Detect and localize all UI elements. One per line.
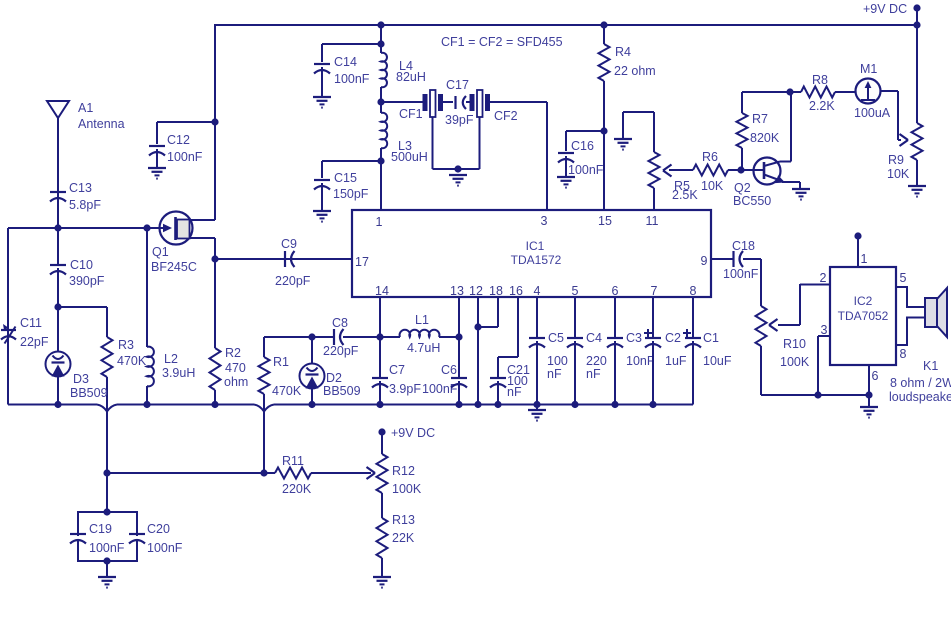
ground R9 [908, 186, 926, 197]
wire M1 to R9 wiper [881, 91, 909, 146]
wire pin 5 to speaker [896, 287, 925, 307]
svg-text:C5: C5 [548, 331, 564, 345]
pin 3 label IC2 [821, 323, 828, 337]
svg-text:nF: nF [507, 385, 522, 399]
capacitor C18 100nF [711, 239, 761, 281]
svg-text:R2: R2 [225, 346, 241, 360]
svg-text:2.2K: 2.2K [809, 99, 835, 113]
antenna A1 [47, 101, 125, 189]
wire +9V top rail [214, 24, 917, 26]
svg-text:3: 3 [541, 214, 548, 228]
node gate/L2 junction [143, 224, 150, 231]
pin 15 label [598, 214, 612, 228]
svg-text:ohm: ohm [224, 375, 248, 389]
wire C17 to CF2 [466, 101, 470, 103]
node bus junction C21 [494, 401, 501, 408]
wire gate line [8, 227, 168, 229]
svg-text:100nF: 100nF [147, 541, 183, 555]
wire R1 column through hop [263, 400, 265, 473]
wire R3 column through hop [106, 400, 108, 512]
op-amp IC1 TDA1572 body [352, 210, 711, 297]
pin 14 label [375, 284, 389, 298]
svg-text:R9: R9 [888, 153, 904, 167]
svg-text:220pF: 220pF [275, 274, 311, 288]
svg-text:C14: C14 [334, 55, 357, 69]
transistor Q1 BF245C [147, 212, 215, 275]
svg-text:10nF: 10nF [626, 354, 655, 368]
svg-text:3.9uH: 3.9uH [162, 366, 195, 380]
svg-text:D3: D3 [73, 372, 89, 386]
svg-text:+9V DC: +9V DC [863, 2, 907, 16]
wire C9 line to pin 17 [215, 258, 352, 260]
volume pot R10 100K [756, 259, 810, 395]
wire C8 line [264, 336, 400, 338]
svg-text:Q2: Q2 [734, 181, 751, 195]
capacitor C6 100nF [441, 363, 467, 405]
wire pin 3 line [818, 336, 830, 395]
svg-text:4.7uH: 4.7uH [407, 341, 440, 355]
svg-text:11: 11 [646, 214, 659, 228]
wire L4 column top [380, 25, 382, 53]
node bus junction C4 [571, 401, 578, 408]
node bus junction D2 [308, 401, 315, 408]
capacitor C17 39pF [445, 78, 474, 127]
node pin14/L1/C8 junction [376, 333, 383, 340]
wire left tuning branch [7, 228, 9, 405]
svg-text:D2: D2 [326, 371, 342, 385]
ground R13 [373, 577, 391, 588]
pin 1 label IC2 [861, 252, 868, 266]
ground bus symbol [528, 405, 546, 421]
svg-text:470K: 470K [117, 354, 147, 368]
pin 13 label [450, 284, 464, 298]
svg-text:BF245C: BF245C [151, 260, 197, 274]
capacitor C1 10uF [683, 297, 732, 405]
inductor L1 4.7uH [400, 313, 459, 355]
svg-text:C1: C1 [703, 331, 719, 345]
svg-text:100uA: 100uA [854, 106, 891, 120]
node IC2 pin 1 terminal [854, 232, 861, 267]
pin 18 label [489, 284, 503, 298]
svg-text:8: 8 [690, 284, 697, 298]
svg-text:220K: 220K [282, 482, 312, 496]
svg-text:Q1: Q1 [152, 245, 169, 259]
trimmer R12 100K [377, 432, 422, 518]
resistor R2 470 ohm [210, 346, 249, 405]
resistor R1 470K [259, 337, 302, 400]
svg-text:4: 4 [534, 284, 541, 298]
trimmer R5 2.5K [649, 112, 699, 210]
node bus junction C2 [649, 401, 656, 408]
meter M1 100uA [854, 62, 891, 120]
svg-text:C16: C16 [571, 139, 594, 153]
svg-text:390pF: 390pF [69, 274, 105, 288]
svg-text:100nF: 100nF [167, 150, 203, 164]
resistor R8 2.2K [790, 73, 856, 113]
svg-text:22K: 22K [392, 531, 415, 545]
junction rail to R9 column [913, 21, 920, 28]
capacitor C12 100nF [148, 118, 219, 178]
node Q1 source / C9 junction [211, 255, 218, 262]
pin 5 label IC2 [900, 271, 907, 285]
ground CF filters [449, 175, 467, 186]
loudspeaker K1 [889, 288, 951, 404]
node lower junction R1 column [260, 469, 267, 476]
node pin12/pin18 junction [474, 323, 481, 330]
node bus junction pin12 [474, 401, 481, 408]
svg-text:100nF: 100nF [723, 267, 759, 281]
svg-text:BC550: BC550 [733, 194, 771, 208]
wire pin 18 jog [478, 297, 498, 327]
svg-text:IC1: IC1 [526, 239, 545, 253]
svg-text:M1: M1 [860, 62, 877, 76]
svg-text:82uH: 82uH [396, 70, 426, 84]
node bus junction C3 [611, 401, 618, 408]
svg-text:7: 7 [651, 284, 658, 298]
label C6 value [422, 382, 458, 396]
svg-text:nF: nF [547, 367, 562, 381]
node L3/C15 junction [377, 157, 384, 164]
wire CF2 to pin 3 [490, 102, 547, 210]
ground IC2 [860, 395, 878, 418]
svg-text:5.8pF: 5.8pF [69, 198, 101, 212]
node +9V DC supply terminal [863, 2, 921, 25]
node bus junction D3 [54, 401, 61, 408]
svg-text:9: 9 [701, 254, 708, 268]
svg-text:6: 6 [872, 369, 879, 383]
varactor diode D3 BB509 [46, 307, 108, 405]
wire pin 12 column [477, 297, 479, 405]
svg-text:C20: C20 [147, 522, 170, 536]
pin 3 label [541, 214, 548, 228]
node pin3 junction [814, 391, 821, 398]
svg-text:C15: C15 [334, 171, 357, 185]
svg-text:Antenna: Antenna [78, 117, 125, 131]
svg-text:A1: A1 [78, 101, 93, 115]
node CF ground junction [454, 165, 461, 172]
capacitor C3 10nF [607, 297, 655, 405]
capacitor C10 390pF [50, 228, 105, 307]
node gate/C13 junction [54, 224, 61, 231]
svg-text:R8: R8 [812, 73, 828, 87]
trimmer R9 10K [887, 25, 923, 186]
svg-text:1: 1 [376, 215, 383, 229]
svg-text:+9V DC: +9V DC [391, 426, 435, 440]
svg-text:2: 2 [820, 271, 827, 285]
svg-text:2.5K: 2.5K [672, 188, 698, 202]
wire Q1 source to R2 [214, 238, 216, 348]
svg-text:8: 8 [900, 347, 907, 361]
svg-text:18: 18 [489, 284, 503, 298]
svg-text:R7: R7 [752, 112, 768, 126]
ground C19 C20 [98, 577, 116, 588]
node C14 branch [377, 40, 384, 47]
node bus junction C7 [376, 401, 383, 408]
ceramic filter CF1 [399, 90, 443, 121]
pin 1 label [376, 215, 383, 229]
svg-text:TDA1572: TDA1572 [511, 253, 562, 267]
node lower junction R3 column [103, 469, 110, 476]
pin 4 label [534, 284, 541, 298]
pin 7 label [651, 284, 658, 298]
svg-text:100nF: 100nF [89, 541, 125, 555]
wire CF1/CF2 ground legs [433, 117, 480, 169]
wire pin 14 column [379, 297, 381, 377]
resistor R3 470K [102, 337, 147, 400]
svg-text:13: 13 [450, 284, 464, 298]
node bus junction C5 [533, 401, 540, 408]
capacitor C8 220pF [323, 316, 359, 358]
node +9V terminal R12 [378, 426, 435, 440]
svg-text:R6: R6 [702, 150, 718, 164]
capacitor C15 150pF [313, 161, 381, 222]
pin 17 label [355, 255, 369, 269]
svg-text:14: 14 [375, 284, 389, 298]
resistor R6 10K [669, 150, 741, 193]
svg-text:12: 12 [469, 284, 483, 298]
svg-text:1uF: 1uF [665, 354, 687, 368]
svg-text:5: 5 [900, 271, 907, 285]
wire pin 13 column [458, 297, 460, 377]
svg-text:BB509: BB509 [323, 384, 361, 398]
node bus junction R2 [211, 401, 218, 408]
wire R10 wiper to pin 2 [800, 284, 830, 286]
svg-text:CF1: CF1 [399, 107, 423, 121]
variable capacitor C11 22pF [1, 316, 49, 349]
node R7/R8/collector junction [786, 88, 793, 95]
pin 11 label [646, 214, 659, 228]
svg-text:R1: R1 [273, 355, 289, 369]
ground Q2 emitter [792, 189, 810, 200]
svg-text:22 ohm: 22 ohm [614, 64, 656, 78]
svg-text:C13: C13 [69, 181, 92, 195]
svg-text:150pF: 150pF [333, 187, 369, 201]
label CF1 = CF2 = SFD455 [441, 35, 563, 49]
svg-text:10K: 10K [701, 179, 724, 193]
svg-text:CF2: CF2 [494, 109, 518, 123]
capacitor C16 100nF [557, 131, 604, 188]
svg-text:R4: R4 [615, 45, 631, 59]
svg-text:C6: C6 [441, 363, 457, 377]
inductor L4 82uH [381, 53, 426, 87]
svg-text:8 ohm / 2W: 8 ohm / 2W [890, 376, 951, 390]
svg-text:R12: R12 [392, 464, 415, 478]
capacitor C20 100nF [129, 522, 183, 555]
svg-text:6: 6 [612, 284, 619, 298]
pin 2 label IC2 [820, 271, 827, 285]
svg-text:100nF: 100nF [422, 382, 458, 396]
wire pin 6 / output ground line [761, 365, 869, 395]
svg-text:loudspeaker: loudspeaker [889, 390, 951, 404]
svg-text:470K: 470K [272, 384, 302, 398]
svg-text:1: 1 [861, 252, 868, 266]
svg-text:BB509: BB509 [70, 386, 108, 400]
wire to CF1 [381, 101, 423, 103]
wire ground bus [8, 405, 693, 412]
node pin13/L1 junction [455, 333, 462, 340]
svg-text:17: 17 [355, 255, 369, 269]
svg-text:L2: L2 [164, 352, 178, 366]
pin 8 label IC2 [900, 347, 907, 361]
node R4/C16 junction [600, 127, 607, 134]
svg-text:C2: C2 [665, 331, 681, 345]
junction on rail at L4 column [377, 21, 384, 28]
svg-text:C4: C4 [586, 331, 602, 345]
svg-text:100nF: 100nF [568, 163, 604, 177]
svg-text:C11: C11 [20, 316, 42, 330]
svg-text:3: 3 [821, 323, 828, 337]
transistor Q2 BC550 [733, 92, 800, 208]
pin 5 label [572, 284, 579, 298]
capacitor bank C19 C20 box [78, 508, 137, 577]
svg-text:220pF: 220pF [323, 344, 359, 358]
resistor R13 22K [377, 513, 415, 577]
wire pin 8 to speaker [896, 318, 925, 346]
capacitor C14 100nF [313, 44, 381, 108]
node bus junction L2 [143, 401, 150, 408]
pin 9 label [701, 254, 708, 268]
svg-text:100K: 100K [392, 482, 422, 496]
svg-text:C12: C12 [167, 133, 190, 147]
wire CF1 to C17 [443, 101, 453, 103]
varactor diode D2 BB509 [300, 333, 361, 404]
pin 16 label [509, 284, 523, 298]
svg-text:39pF: 39pF [445, 113, 474, 127]
capacitor C19 100nF [70, 522, 125, 555]
svg-text:C17: C17 [446, 78, 469, 92]
pin 6 label IC2 [872, 369, 879, 383]
node bus junction C6 [455, 401, 462, 408]
node pin6 junction [865, 391, 872, 398]
wire pin 16 to C21 [498, 297, 518, 377]
capacitor C5 100nF [529, 297, 568, 405]
svg-text:5: 5 [572, 284, 579, 298]
wire tuning voltage line [107, 472, 275, 474]
svg-text:R3: R3 [118, 338, 134, 352]
svg-text:C19: C19 [89, 522, 112, 536]
capacitor C21 100nF [490, 363, 530, 405]
ceramic filter CF2 [470, 90, 518, 123]
svg-text:R10: R10 [783, 337, 806, 351]
inductor L3 500uH [381, 113, 428, 210]
svg-text:500uH: 500uH [391, 150, 428, 164]
svg-text:C10: C10 [70, 258, 93, 272]
wire R7 top to R8 [742, 91, 790, 93]
svg-text:C9: C9 [281, 237, 297, 251]
svg-text:100nF: 100nF [334, 72, 370, 86]
svg-text:3.9pF: 3.9pF [389, 382, 421, 396]
pin 12 label [469, 284, 483, 298]
pin 6 label [612, 284, 619, 298]
svg-text:220: 220 [586, 354, 607, 368]
svg-text:C3: C3 [626, 331, 642, 345]
inductor L2 3.9uH [147, 228, 195, 405]
junction on rail at R4 column [600, 21, 607, 28]
svg-text:15: 15 [598, 214, 612, 228]
svg-text:CF1 = CF2 = SFD455: CF1 = CF2 = SFD455 [441, 35, 563, 49]
svg-text:16: 16 [509, 284, 523, 298]
svg-text:R11: R11 [282, 454, 304, 468]
wire junction to R3 [58, 307, 107, 337]
svg-text:22pF: 22pF [20, 335, 49, 349]
capacitor C13 5.8pF [50, 181, 101, 228]
amplifier IC2 TDA7052 body [830, 267, 896, 365]
capacitor C4 220nF [567, 297, 607, 405]
svg-text:C8: C8 [332, 316, 348, 330]
svg-text:100K: 100K [780, 355, 810, 369]
svg-text:IC2: IC2 [854, 294, 873, 308]
node L4/L3/CF1 junction [377, 87, 384, 113]
svg-text:R13: R13 [392, 513, 415, 527]
resistor R11 220K [275, 454, 375, 496]
capacitor C2 1uF [644, 297, 687, 405]
pin 8 label [690, 284, 697, 298]
capacitor C9 220pF [275, 237, 311, 288]
svg-text:100: 100 [547, 354, 568, 368]
svg-text:470: 470 [225, 361, 246, 375]
node Q2 base junction [737, 166, 744, 173]
node C10/D3/R3 junction [54, 303, 61, 310]
capacitor C7 3.9pF [372, 363, 421, 405]
svg-text:10K: 10K [887, 167, 910, 181]
resistor R4 22 ohm [599, 25, 656, 210]
svg-text:C7: C7 [389, 363, 405, 377]
svg-text:820K: 820K [750, 131, 780, 145]
svg-text:L1: L1 [415, 313, 429, 327]
svg-text:10uF: 10uF [703, 354, 732, 368]
svg-text:nF: nF [586, 367, 601, 381]
svg-text:C18: C18 [732, 239, 755, 253]
svg-text:K1: K1 [923, 359, 938, 373]
svg-text:TDA7052: TDA7052 [838, 309, 889, 323]
wire Q1 drain column [214, 25, 216, 220]
ground R5 top [614, 112, 654, 150]
resistor R7 820K [737, 92, 780, 170]
